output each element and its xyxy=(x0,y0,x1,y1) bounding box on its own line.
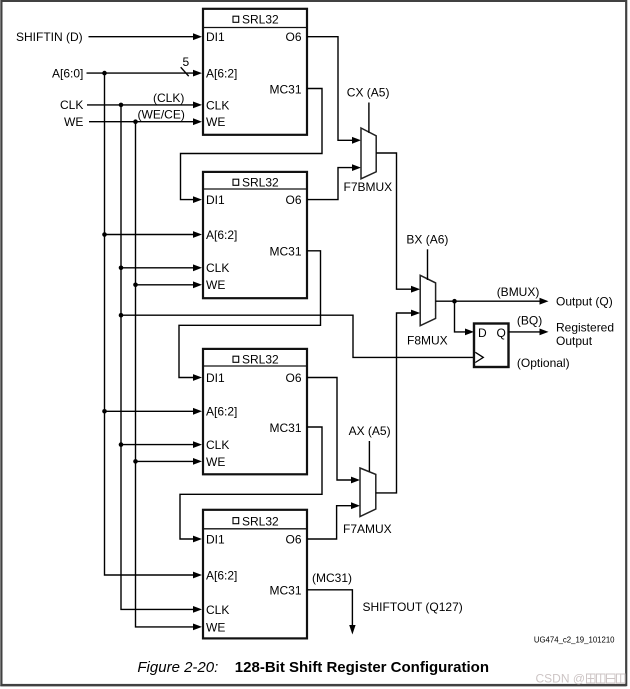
wire WE branch to U3 WE xyxy=(136,458,203,465)
svg-text:CLK: CLK xyxy=(206,261,229,275)
svg-text:(CLK): (CLK) xyxy=(153,91,184,105)
svg-text:SRL32: SRL32 xyxy=(242,13,279,27)
label BX (A6) xyxy=(406,233,448,247)
svg-text:A[6:2]: A[6:2] xyxy=(206,228,237,242)
node WE-U3 xyxy=(133,459,138,464)
svg-text:CLK: CLK xyxy=(206,438,229,452)
svg-text:F7BMUX: F7BMUX xyxy=(344,180,393,194)
label (BMUX) xyxy=(497,285,540,299)
wire U2 MC31 to U3 DI1 xyxy=(179,251,321,381)
svg-text:O6: O6 xyxy=(285,30,301,44)
wire A trunk to U4 A[6:2] xyxy=(105,73,203,578)
mux F7BMUX xyxy=(361,128,376,179)
wire U3 O6 to F7AMUX in0 xyxy=(307,378,360,484)
node BMUX-out xyxy=(452,299,457,304)
wire CLK trunk to U4 CLK xyxy=(121,105,202,613)
label F7AMUX xyxy=(343,522,392,536)
svg-text:SRL32: SRL32 xyxy=(242,176,279,190)
svg-text:(MC31): (MC31) xyxy=(312,571,352,585)
node WE-tap xyxy=(133,119,138,124)
wire U4 O6 to F7AMUX in1 xyxy=(307,502,360,539)
caption Figure 2-20 xyxy=(137,659,489,676)
wire FF Q to Registered Output xyxy=(509,329,549,336)
svg-text:MC31: MC31 xyxy=(269,584,301,598)
svg-text:SHIFTOUT (Q127): SHIFTOUT (Q127) xyxy=(363,600,463,614)
wire CX select to F7BMUX xyxy=(368,103,370,133)
svg-text:A[6:2]: A[6:2] xyxy=(206,405,237,419)
svg-text:A[6:2]: A[6:2] xyxy=(206,67,237,81)
svg-text:Output: Output xyxy=(556,334,593,348)
svg-text:WE: WE xyxy=(206,278,225,292)
wire U3 MC31 to U4 DI1 xyxy=(180,427,322,542)
node CLK-FF xyxy=(119,313,124,318)
wire AX select to F7AMUX xyxy=(368,441,370,472)
svg-text:CLK: CLK xyxy=(206,98,229,112)
svg-text:Q: Q xyxy=(497,326,506,340)
node A-tap xyxy=(102,71,107,76)
svg-text:Figure 2-20:: Figure 2-20: xyxy=(137,659,218,676)
wire F7BMUX out to F8MUX in0 xyxy=(376,153,420,293)
wire SHIFTIN to U1 DI1 xyxy=(89,33,203,40)
label WE xyxy=(64,115,83,129)
svg-text:F7AMUX: F7AMUX xyxy=(343,522,392,536)
svg-text:(BQ): (BQ) xyxy=(517,313,542,327)
label (CLK) xyxy=(153,91,184,105)
wire CLK branch to U3 CLK xyxy=(121,441,202,448)
svg-text:CX (A5): CX (A5) xyxy=(347,86,390,100)
node WE-U2 xyxy=(133,283,138,288)
wire WE branch to U2 WE xyxy=(136,281,203,288)
svg-text:(Optional): (Optional) xyxy=(517,356,570,370)
wire A[6:0] to U1 A[6:2] xyxy=(87,70,203,77)
label F8MUX xyxy=(407,334,448,348)
node A-U2 xyxy=(102,232,107,237)
wire CLK branch to FF clock xyxy=(121,315,473,357)
label F7BMUX xyxy=(344,180,393,194)
SRL32 block U3 xyxy=(203,349,307,474)
svg-text:SRL32: SRL32 xyxy=(242,353,279,367)
label (Optional) xyxy=(517,356,570,370)
wire F7AMUX out to F8MUX in1 xyxy=(376,310,420,493)
SRL32 block U1 xyxy=(203,9,307,135)
label (WE/CE) xyxy=(138,108,185,122)
label A[6:0] xyxy=(52,66,83,80)
svg-text:DI1: DI1 xyxy=(206,532,225,546)
svg-text:O6: O6 xyxy=(285,371,301,385)
wire U1 MC31 to U2 DI1 xyxy=(181,89,323,204)
svg-text:D: D xyxy=(478,326,487,340)
mux F7AMUX xyxy=(360,468,376,517)
svg-text:A[6:0]: A[6:0] xyxy=(52,66,83,80)
svg-text:MC31: MC31 xyxy=(269,82,301,96)
svg-text:Registered: Registered xyxy=(556,320,614,334)
watermark CSDN xyxy=(536,672,626,686)
svg-text:AX (A5): AX (A5) xyxy=(349,424,391,438)
label AX (A5) xyxy=(349,424,391,438)
wire BMUX to FF D xyxy=(455,301,475,335)
label Output (Q) xyxy=(556,295,613,309)
label CLK xyxy=(60,98,83,112)
svg-text:WE: WE xyxy=(206,620,225,634)
svg-text:(BMUX): (BMUX) xyxy=(497,285,540,299)
wire BX select to F8MUX xyxy=(427,249,429,280)
label 5 xyxy=(183,55,190,69)
node CLK-U3 xyxy=(119,442,124,447)
wire U4 MC31 to SHIFTOUT xyxy=(307,590,356,635)
SRL32 block U2 xyxy=(203,172,307,298)
svg-text:UG474_c2_19_101210: UG474_c2_19_101210 xyxy=(534,636,615,645)
svg-text:MC31: MC31 xyxy=(269,245,301,259)
wire WE to U1 WE xyxy=(89,118,202,125)
svg-text:DI1: DI1 xyxy=(206,30,225,44)
svg-text:MC31: MC31 xyxy=(269,421,301,435)
svg-text:BX (A6): BX (A6) xyxy=(406,233,448,247)
wire CLK to U1 CLK xyxy=(87,102,202,109)
wire A branch to U3 A[6:2] xyxy=(105,408,203,415)
node A-U3 xyxy=(102,409,107,414)
label (BQ) xyxy=(517,313,542,327)
wire A branch to U2 A[6:2] xyxy=(105,231,203,238)
wire CLK branch to U2 CLK xyxy=(121,264,202,271)
svg-text:CLK: CLK xyxy=(60,98,83,112)
label SHIFTIN (D) xyxy=(16,30,83,44)
label (MC31) xyxy=(312,571,352,585)
svg-text:DI1: DI1 xyxy=(206,193,225,207)
node CLK-tap xyxy=(119,103,124,108)
SRL32 block U4 xyxy=(203,510,307,639)
svg-text:Output (Q): Output (Q) xyxy=(556,295,613,309)
svg-text:O6: O6 xyxy=(285,532,301,546)
node CLK-U2 xyxy=(119,266,124,271)
svg-text:SHIFTIN (D): SHIFTIN (D) xyxy=(16,30,83,44)
svg-text:(WE/CE): (WE/CE) xyxy=(138,108,185,122)
svg-text:WE: WE xyxy=(206,455,225,469)
svg-text:SRL32: SRL32 xyxy=(242,514,279,528)
mux F8MUX xyxy=(420,275,435,325)
bus width slash xyxy=(181,67,189,76)
svg-text:DI1: DI1 xyxy=(206,371,225,385)
svg-text:128-Bit Shift Register Configu: 128-Bit Shift Register Configuration xyxy=(235,659,489,676)
svg-text:WE: WE xyxy=(64,115,83,129)
label SHIFTOUT (Q127) xyxy=(363,600,463,614)
svg-text:O6: O6 xyxy=(285,193,301,207)
svg-text:CLK: CLK xyxy=(206,603,229,617)
svg-text:5: 5 xyxy=(183,55,190,69)
svg-text:F8MUX: F8MUX xyxy=(407,334,448,348)
wire U2 O6 to F7BMUX in1 xyxy=(307,164,361,199)
wire WE trunk to U4 WE xyxy=(136,122,203,631)
wire U1 O6 to F7BMUX in0 xyxy=(307,37,361,144)
svg-text:WE: WE xyxy=(206,115,225,129)
label Registered Output xyxy=(556,320,614,348)
label UG474_c2_19_101210 xyxy=(534,636,615,645)
flip-flop FF xyxy=(474,324,509,368)
svg-text:CSDN @: CSDN @ xyxy=(536,672,586,686)
label CX (A5) xyxy=(347,86,390,100)
wire F8MUX out to Output (Q) xyxy=(436,298,549,305)
svg-text:A[6:2]: A[6:2] xyxy=(206,568,237,582)
